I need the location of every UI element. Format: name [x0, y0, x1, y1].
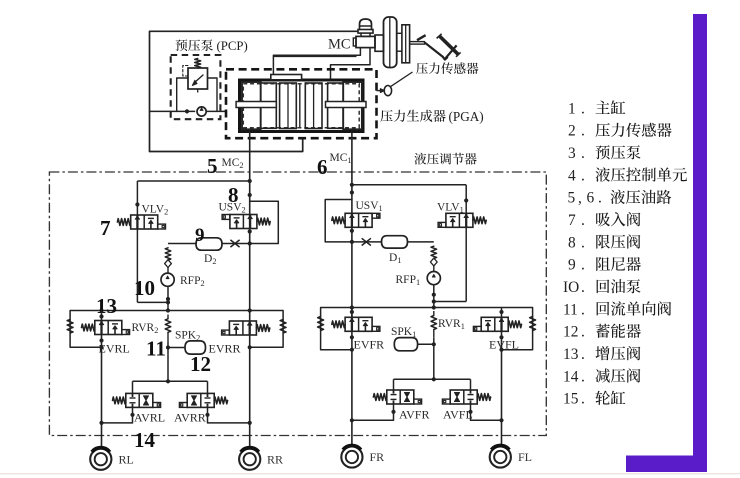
- PGA left rod: [236, 102, 276, 108]
- wire RFP1 in: [433, 266, 435, 272]
- PCP regulator valve: [188, 68, 208, 89]
- pump PCP: [197, 107, 206, 116]
- PCP junction: [185, 109, 189, 113]
- svg-text:.: .: [581, 145, 585, 162]
- valve EVRL: [95, 321, 122, 335]
- svg-text:8: 8: [228, 183, 239, 207]
- svg-text:EVRR: EVRR: [209, 342, 241, 356]
- pipe MC to PGA manifold: [273, 48, 360, 75]
- valve EVFL: [481, 317, 508, 331]
- svg-text:10: 10: [134, 276, 155, 300]
- svg-text:3: 3: [568, 145, 576, 162]
- svg-text:8: 8: [568, 234, 576, 251]
- svg-text:AVRR: AVRR: [174, 411, 206, 425]
- PCP suction line: [150, 110, 196, 112]
- PGA cylinder block: [240, 80, 364, 132]
- wire RL line: [101, 335, 103, 448]
- svg-text:.: .: [581, 346, 585, 363]
- wire branch to VLV1: [352, 184, 466, 186]
- accumulator SPK1: [394, 338, 417, 351]
- PGA label: [380, 110, 445, 122]
- purple side bar: [693, 14, 707, 472]
- wheel cylinder RR: [239, 449, 260, 470]
- svg-text:.: .: [581, 324, 585, 341]
- wire RFP2 in: [167, 268, 169, 274]
- PCP regulator spring: [195, 59, 201, 69]
- svg-text:.: .: [581, 368, 585, 385]
- svg-text:.: .: [598, 190, 602, 207]
- booster coupler: [375, 35, 384, 51]
- svg-text:7: 7: [100, 216, 111, 240]
- pump RFP1: [427, 272, 440, 285]
- wire AV common right: [394, 378, 471, 380]
- svg-text:15: 15: [563, 391, 579, 408]
- valve EVFR: [345, 317, 372, 331]
- svg-text:.: .: [581, 279, 585, 296]
- valve VLV2: [131, 215, 158, 229]
- svg-text:AVFR: AVFR: [399, 408, 429, 422]
- svg-text:.: .: [581, 391, 585, 408]
- booster links: [397, 32, 402, 34]
- accumulator SPK2: [185, 341, 206, 354]
- svg-text:,: ,: [578, 190, 582, 207]
- USV1 bypass loop: [325, 200, 352, 242]
- wire AVRR out: [208, 407, 250, 423]
- valve EVRR: [229, 321, 256, 335]
- wire SPK2: [168, 347, 185, 349]
- bypass EVFR: [321, 308, 352, 350]
- svg-text:(PCP): (PCP): [217, 39, 248, 53]
- valve AVFR: [387, 390, 414, 404]
- PCP loop: [177, 78, 188, 111]
- wheel cylinder FR: [341, 446, 362, 467]
- faint bottom rule: [0, 473, 740, 474]
- svg-text:1: 1: [568, 100, 576, 117]
- pedal pad: [440, 36, 458, 54]
- bypass EVRR: [250, 311, 283, 348]
- valve AVRR: [187, 393, 214, 407]
- svg-text:EVFR: EVFR: [354, 338, 385, 352]
- pump RFP2: [161, 273, 174, 286]
- svg-text:2: 2: [568, 123, 576, 140]
- svg-text:MC: MC: [328, 37, 351, 53]
- sensor leader line: [391, 72, 413, 87]
- PCP label: [176, 39, 213, 51]
- wire EV row top left: [70, 310, 283, 312]
- USV2 bypass loop: [250, 201, 279, 243]
- svg-text:RL: RL: [119, 452, 134, 466]
- svg-text:4: 4: [568, 167, 576, 184]
- PGA left piston: [242, 82, 261, 129]
- svg-text:.: .: [581, 301, 585, 318]
- wire RFP1 out: [433, 285, 435, 308]
- sensor line: [377, 90, 382, 92]
- svg-text:.: .: [581, 167, 585, 184]
- RFP2 spring: [165, 248, 171, 260]
- svg-text:.: .: [581, 123, 585, 140]
- pedal push rod: [410, 41, 425, 43]
- svg-text:.: .: [581, 257, 585, 274]
- pedal clevis: [417, 35, 426, 40]
- firewall plates: [402, 25, 410, 63]
- damper D2: [196, 238, 222, 250]
- wheel cylinder FL: [490, 446, 511, 467]
- svg-text:7: 7: [568, 212, 576, 229]
- damper D1: [382, 236, 408, 248]
- MC outlet fitting: [356, 36, 375, 47]
- pressure sensor: [380, 89, 384, 93]
- HCU label: [414, 153, 476, 165]
- svg-text:IO: IO: [563, 279, 579, 296]
- PGA manifold: [271, 75, 302, 80]
- valve AVRL: [126, 393, 153, 407]
- wire SPK2 junction: [167, 342, 169, 355]
- PGA right plates: [305, 83, 322, 129]
- svg-text:12: 12: [190, 352, 211, 376]
- sensor label: [416, 62, 478, 74]
- valve USV1: [345, 213, 372, 227]
- wire SPK1 junction: [433, 338, 435, 380]
- valve AVFL: [450, 390, 477, 404]
- svg-text:FL: FL: [518, 450, 532, 464]
- svg-text:6: 6: [317, 155, 328, 179]
- check valve D2: [222, 243, 250, 245]
- wire RFP2 out: [167, 286, 169, 310]
- svg-text:5: 5: [568, 190, 576, 207]
- svg-text:14: 14: [134, 428, 156, 452]
- PGA left plates: [280, 83, 297, 129]
- PCP dashed box: [171, 55, 221, 119]
- PGA block inner seal: [243, 84, 359, 128]
- RFP1 check: [430, 258, 437, 266]
- wire FR line: [351, 331, 353, 445]
- check RVR1: [431, 316, 437, 330]
- reservoir cap: [360, 19, 372, 30]
- bypass EVFL: [502, 308, 533, 350]
- wheel cylinder RL: [90, 449, 111, 470]
- wire FL line: [501, 308, 503, 318]
- booster disc: [384, 17, 397, 68]
- wire SPK1: [418, 343, 434, 345]
- svg-text:.: .: [581, 234, 585, 251]
- svg-text:13: 13: [563, 346, 579, 363]
- wire VLV2 down: [136, 229, 138, 302]
- svg-text:RR: RR: [267, 452, 283, 466]
- svg-text:.: .: [581, 212, 585, 229]
- RFP1 spring: [431, 246, 437, 258]
- wire D2 left: [168, 243, 196, 245]
- svg-text:13: 13: [96, 294, 117, 318]
- wire branch to VLV2: [137, 180, 249, 182]
- svg-text:5: 5: [207, 154, 218, 178]
- purple bottom bar: [626, 456, 707, 473]
- svg-text:(PGA): (PGA): [449, 109, 484, 124]
- wire EV row top right: [321, 307, 533, 309]
- wire VLV1 down: [465, 227, 467, 301]
- master cylinder barrel: [273, 55, 356, 57]
- wire SPK2 to AV: [167, 354, 169, 381]
- PGA right piston: [328, 83, 344, 128]
- RFP2 check: [165, 260, 172, 268]
- PCP pilot line: [183, 66, 188, 77]
- check RVR2: [165, 319, 171, 333]
- check valve D1: [352, 241, 382, 243]
- svg-text:9: 9: [568, 257, 576, 274]
- pipe MC2: [249, 132, 251, 323]
- svg-text:11: 11: [563, 301, 578, 318]
- wire AVFL out: [471, 404, 502, 420]
- HCU dashed box: [49, 172, 546, 436]
- PGA dashed box: [226, 69, 377, 138]
- svg-text:11: 11: [146, 337, 166, 361]
- wire AV common left: [133, 380, 208, 382]
- wire AVRL out: [102, 407, 133, 423]
- wire D1 right: [408, 241, 434, 243]
- wire EVFR port: [351, 308, 353, 318]
- wire EVRL port: [101, 311, 103, 321]
- svg-text:12: 12: [563, 324, 578, 341]
- wire RR line: [249, 335, 251, 447]
- PCP output line: [206, 110, 226, 112]
- valve VLV1: [446, 213, 473, 227]
- svg-text:AVFL: AVFL: [443, 408, 473, 422]
- svg-text:14: 14: [563, 368, 579, 385]
- assembly box: [150, 31, 358, 151]
- PGA right rod: [326, 102, 367, 108]
- pedal lever: [425, 43, 447, 60]
- bypass EVRL: [70, 311, 101, 348]
- svg-text:AVRL: AVRL: [134, 411, 165, 425]
- pipe MC to PGA right port: [331, 48, 371, 80]
- wire AVFR out: [352, 404, 394, 420]
- svg-text:FR: FR: [370, 450, 385, 464]
- svg-text:.: .: [581, 100, 585, 117]
- svg-text:9: 9: [195, 225, 205, 246]
- pipe MC1: [351, 132, 353, 321]
- svg-text:6: 6: [587, 190, 595, 207]
- PGA center seal: [299, 83, 301, 129]
- valve USV2: [230, 215, 257, 229]
